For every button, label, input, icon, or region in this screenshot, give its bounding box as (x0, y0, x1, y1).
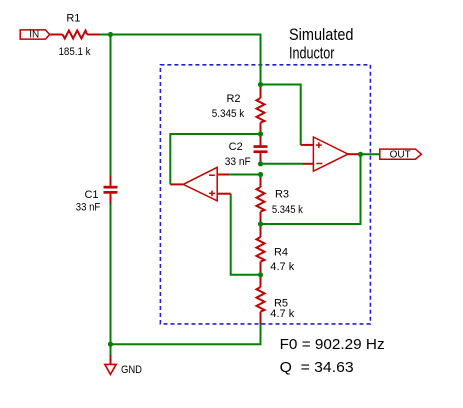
svg-text:Simulated: Simulated (289, 26, 354, 44)
svg-text:5.345 k: 5.345 k (272, 204, 303, 216)
svg-text:4.7 k: 4.7 k (270, 261, 294, 273)
svg-text:R4: R4 (274, 247, 288, 259)
svg-text:C1: C1 (84, 189, 98, 201)
svg-text:IN: IN (29, 30, 39, 41)
svg-text:C2: C2 (229, 141, 243, 153)
svg-text:R2: R2 (226, 93, 240, 105)
svg-text:F0 = 902.29 Hz: F0 = 902.29 Hz (280, 336, 385, 353)
svg-text:Q = 34.63: Q = 34.63 (280, 359, 354, 376)
svg-text:R1: R1 (66, 13, 80, 25)
svg-text:185.1 k: 185.1 k (59, 46, 91, 58)
svg-text:33 nF: 33 nF (225, 156, 251, 168)
svg-text:GND: GND (121, 364, 142, 376)
svg-text:5.345 k: 5.345 k (212, 108, 245, 120)
svg-text:33 nF: 33 nF (76, 202, 101, 214)
svg-text:R3: R3 (275, 188, 289, 200)
svg-text:Inductor: Inductor (289, 44, 335, 62)
svg-text:OUT: OUT (390, 150, 411, 161)
svg-text:4.7 k: 4.7 k (270, 308, 294, 320)
